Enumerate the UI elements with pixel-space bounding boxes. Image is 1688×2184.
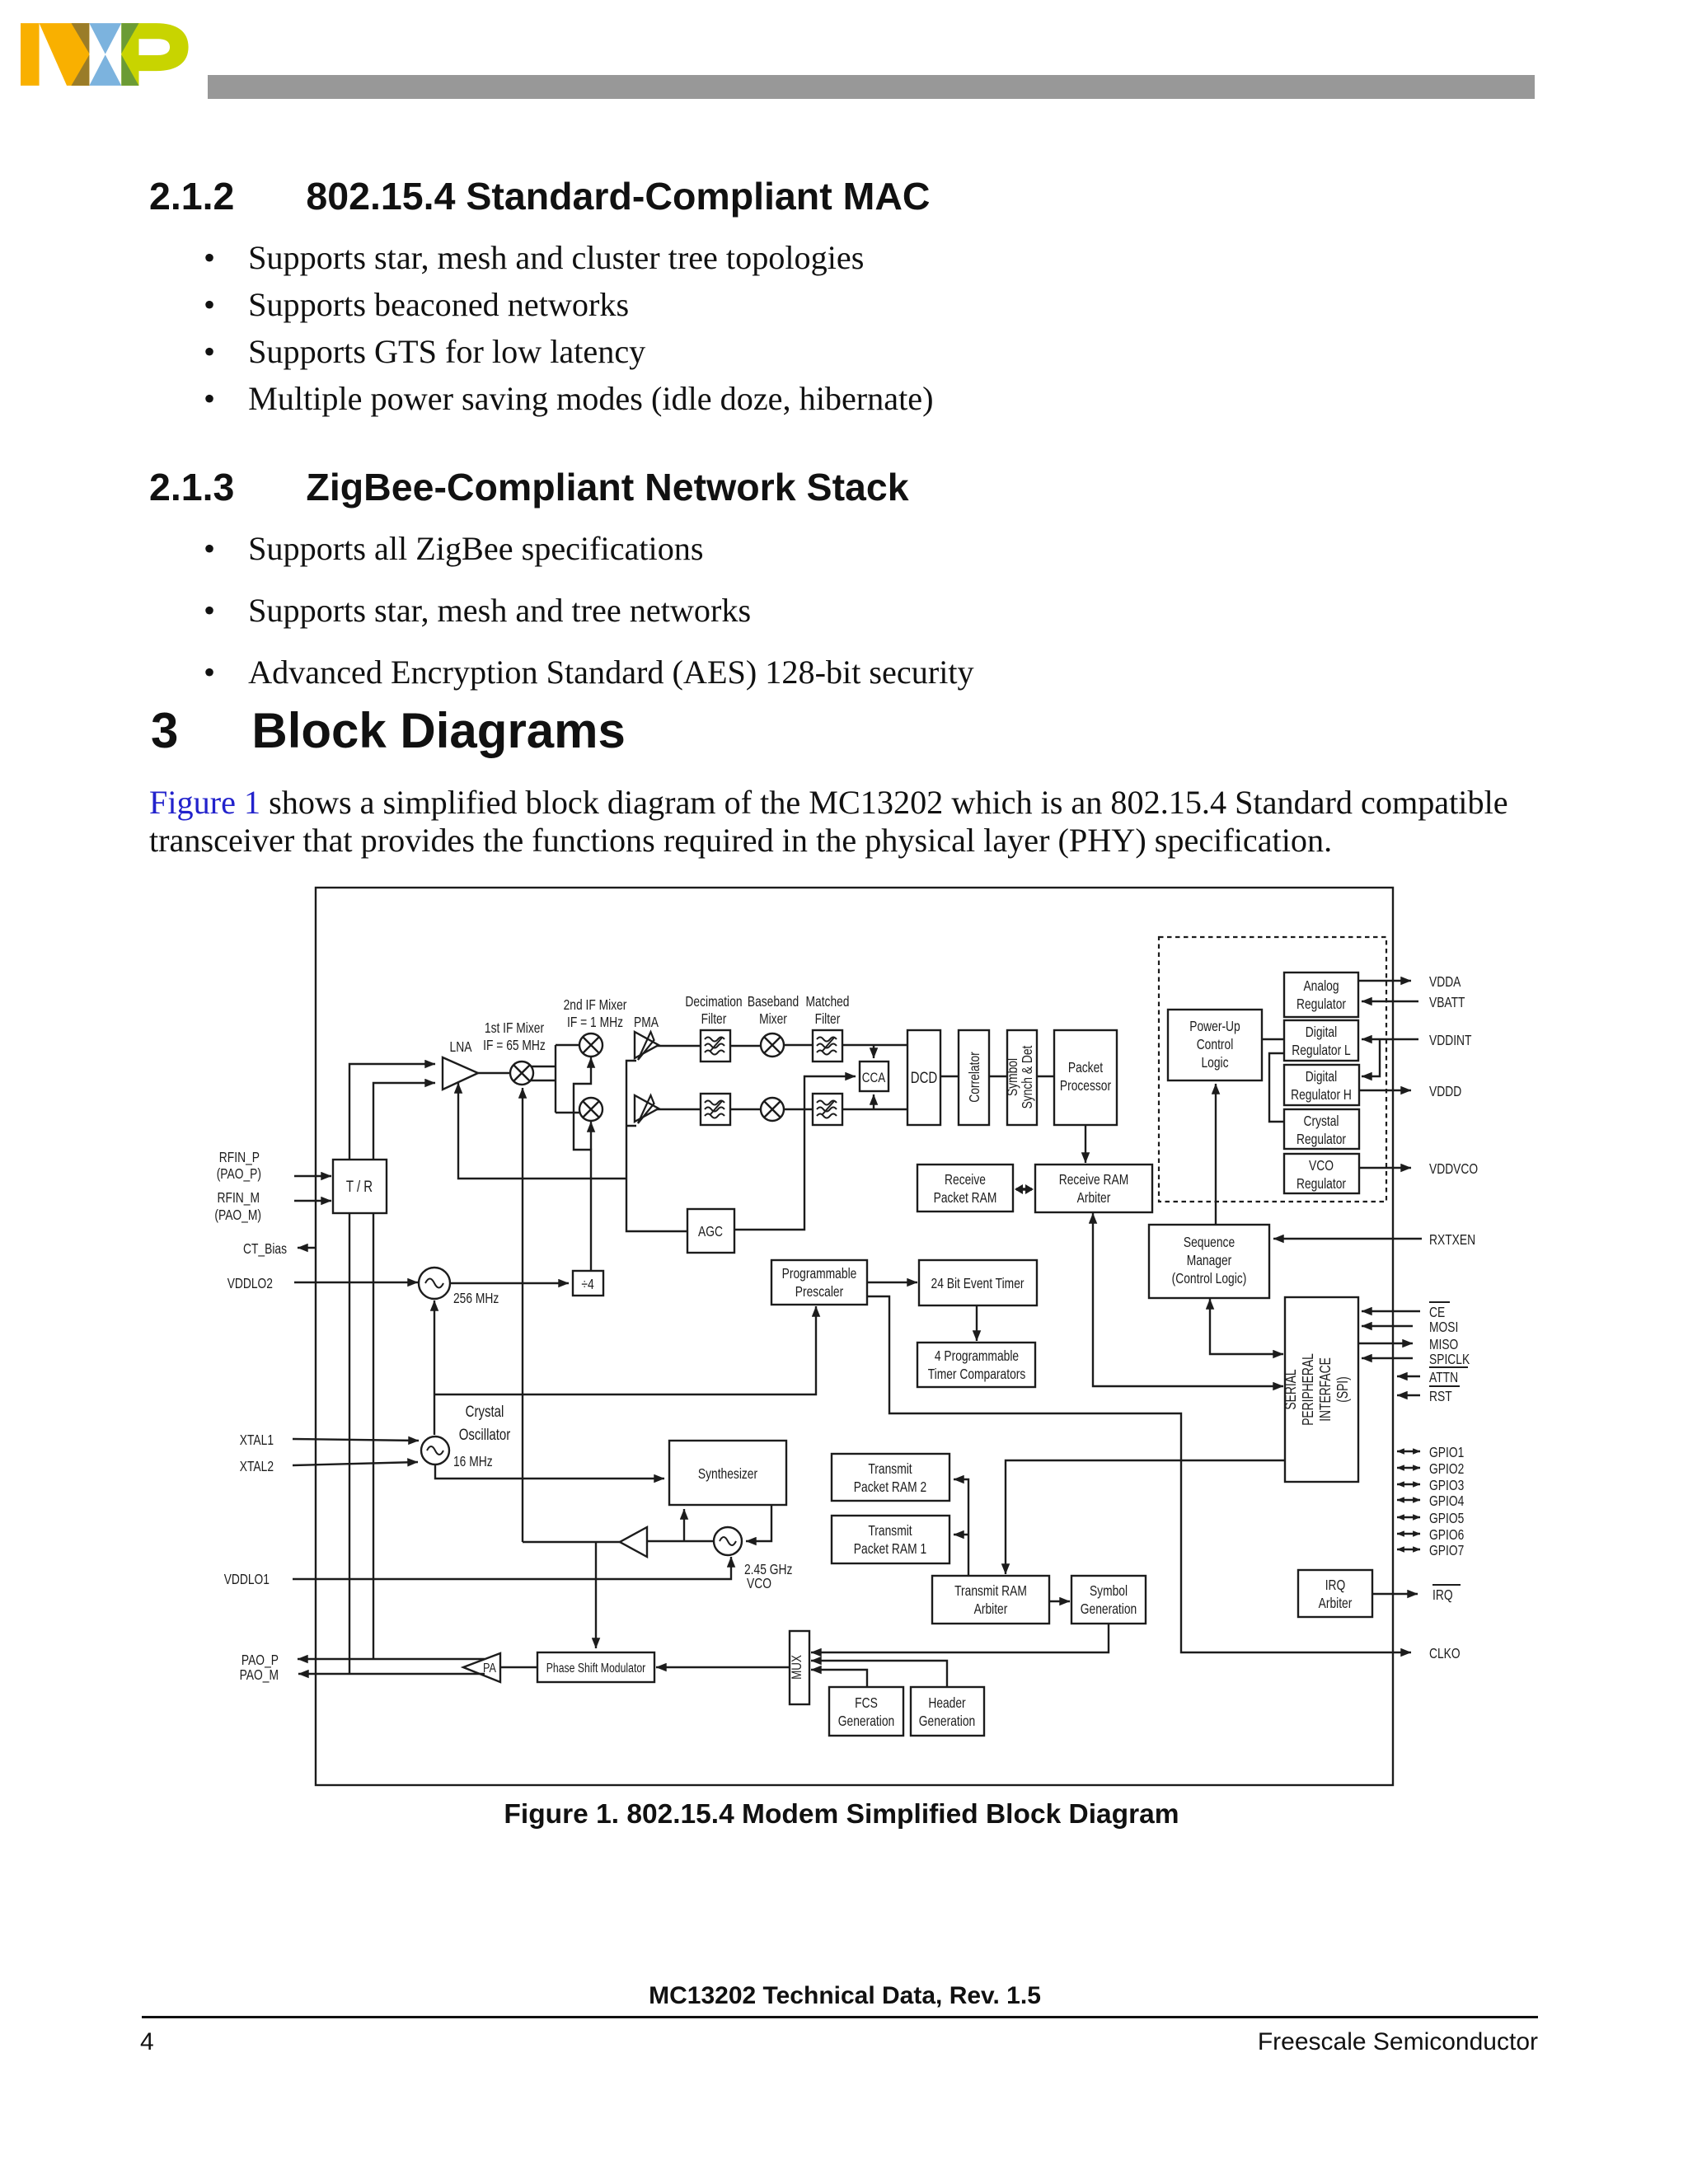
section 2.1.2 heading bbox=[149, 177, 931, 215]
wire matched filter upper to DCD bbox=[842, 1044, 907, 1046]
wire lower chain into CCA bottom bbox=[873, 1094, 874, 1109]
svg-text:÷4: ÷4 bbox=[581, 1276, 594, 1292]
figure caption bbox=[0, 1799, 1683, 1830]
svg-text:(PAO_P): (PAO_P) bbox=[217, 1165, 261, 1183]
svg-text:Decimation: Decimation bbox=[685, 993, 742, 1010]
pin GPIO2 double arrow bbox=[1397, 1467, 1420, 1469]
wire matched filter lower to DCD bbox=[842, 1108, 907, 1110]
wire 256MHz oscillator to divide-by-4 bbox=[450, 1282, 569, 1284]
svg-text:VDDD: VDDD bbox=[1429, 1083, 1461, 1099]
block DCD bbox=[907, 1030, 940, 1125]
svg-text:(PAO_M): (PAO_M) bbox=[214, 1207, 261, 1224]
svg-text:VCO: VCO bbox=[1309, 1157, 1334, 1174]
pin GPIO4 double arrow bbox=[1397, 1499, 1420, 1501]
svg-text:AGC: AGC bbox=[698, 1223, 723, 1240]
svg-text:Filter: Filter bbox=[701, 1010, 727, 1027]
block Phase Shift Modulator bbox=[537, 1652, 654, 1682]
outer frame of block diagram bbox=[316, 888, 1393, 1785]
block Transmit Packet RAM 1 bbox=[832, 1516, 949, 1563]
svg-text:Power-Up: Power-Up bbox=[1189, 1018, 1240, 1034]
block IRQ Arbiter bbox=[1298, 1570, 1372, 1617]
svg-text:T / R: T / R bbox=[346, 1179, 373, 1196]
footer page number bbox=[140, 2028, 154, 2056]
svg-text:Generation: Generation bbox=[838, 1713, 894, 1729]
svg-text:Header: Header bbox=[928, 1694, 965, 1711]
wire divide-by-4 output up to 2nd IF mixers bbox=[574, 1057, 591, 1271]
block FCS Generation bbox=[829, 1687, 903, 1736]
wire VDDVCO output bbox=[1359, 1167, 1411, 1169]
svg-text:Mixer: Mixer bbox=[759, 1010, 787, 1027]
mixer baseband upper bbox=[761, 1033, 784, 1057]
wire VDDLO2 to 256MHz oscillator bbox=[294, 1282, 418, 1283]
wire decimation to baseband mixer lower bbox=[730, 1108, 761, 1110]
svg-text:Manager: Manager bbox=[1187, 1252, 1232, 1268]
wire 1st IF mixer output stubs to split bus bbox=[531, 1045, 580, 1113]
block Symbol Synch and Det bbox=[1007, 1030, 1037, 1125]
wire double arrow Receive Packet RAM to Receive RAM Arbiter bbox=[1016, 1188, 1032, 1190]
block Crystal Regulator bbox=[1284, 1109, 1359, 1149]
svg-text:Digital: Digital bbox=[1306, 1024, 1337, 1040]
bullets 2.1.3 bbox=[204, 518, 974, 703]
wire PMA upper output to decimation filter bbox=[657, 1045, 701, 1047]
svg-text:RST: RST bbox=[1429, 1388, 1452, 1404]
svg-text:VDDVCO: VDDVCO bbox=[1429, 1160, 1478, 1177]
svg-text:Sequence: Sequence bbox=[1184, 1234, 1235, 1250]
amplifier PA bbox=[463, 1653, 500, 1682]
wire LO from VCO buffer up to 1st IF mixer bbox=[522, 1088, 523, 1542]
svg-text:Transmit: Transmit bbox=[868, 1522, 912, 1539]
svg-text:Matched: Matched bbox=[806, 993, 850, 1010]
section 2.1.3 heading bbox=[149, 468, 909, 506]
wire buffer line down to Phase Shift Modulator bbox=[595, 1542, 597, 1648]
block Programmable Prescaler bbox=[771, 1260, 867, 1305]
svg-text:RXTXEN: RXTXEN bbox=[1429, 1231, 1475, 1248]
wire Sequence Manager up to Power-Up Control Logic bbox=[1215, 1084, 1217, 1225]
wire T/R bottom to PAO_P line bbox=[373, 1213, 374, 1659]
oscillator 256 MHz bbox=[419, 1268, 450, 1299]
block Digital Regulator L bbox=[1284, 1020, 1358, 1061]
wire RFIN_M into T/R bbox=[294, 1200, 331, 1202]
block CCA bbox=[860, 1062, 889, 1091]
svg-text:IRQ: IRQ bbox=[1432, 1586, 1453, 1603]
svg-text:Crystal: Crystal bbox=[466, 1404, 504, 1421]
wire Transmit RAM Arbiter to Symbol Generation bbox=[1049, 1601, 1070, 1602]
wire VDDINT input to Digital Regulators bbox=[1362, 1038, 1418, 1040]
wire SPI link to Sequence Manager bottom bbox=[1210, 1299, 1283, 1354]
svg-text:Receive: Receive bbox=[945, 1171, 986, 1188]
svg-text:Generation: Generation bbox=[919, 1713, 975, 1729]
svg-text:1st IF Mixer: 1st IF Mixer bbox=[485, 1019, 544, 1036]
wire VBATT input to Analog Regulator bbox=[1362, 1001, 1418, 1002]
svg-text:PAO_M: PAO_M bbox=[240, 1666, 279, 1684]
svg-text:LNA: LNA bbox=[450, 1038, 472, 1055]
pin GPIO3 double arrow bbox=[1397, 1483, 1420, 1485]
bullets 2.1.2 bbox=[204, 234, 934, 422]
wire AGC to CCA left input bbox=[734, 1076, 856, 1230]
svg-text:Symbol: Symbol bbox=[1090, 1582, 1128, 1599]
svg-text:Phase Shift Modulator: Phase Shift Modulator bbox=[546, 1661, 646, 1675]
svg-text:Packet: Packet bbox=[1068, 1059, 1103, 1076]
svg-text:VDDA: VDDA bbox=[1429, 973, 1461, 990]
wire DCD to Correlator bbox=[940, 1076, 959, 1077]
block 24 Bit Event Timer bbox=[919, 1260, 1037, 1305]
svg-text:MISO: MISO bbox=[1429, 1336, 1458, 1352]
svg-text:Arbiter: Arbiter bbox=[1319, 1595, 1353, 1611]
svg-text:RFIN_P: RFIN_P bbox=[219, 1149, 260, 1166]
wire Digital Regulator L link down to Crystal Regulator bbox=[1269, 1053, 1284, 1122]
svg-text:Crystal: Crystal bbox=[1304, 1113, 1339, 1129]
wire Packet Processor down to Receive RAM Arbiter bbox=[1085, 1125, 1086, 1163]
wire Transmit RAM Arbiter up to Transmit Packet RAMs bbox=[954, 1479, 968, 1576]
svg-text:PA: PA bbox=[483, 1661, 496, 1675]
svg-text:VBATT: VBATT bbox=[1429, 994, 1465, 1010]
svg-text:Baseband: Baseband bbox=[748, 993, 799, 1010]
wire Header Generation up to MUX bbox=[811, 1661, 947, 1687]
svg-text:Programmable: Programmable bbox=[782, 1265, 857, 1282]
wire Prescaler second output to CLKO bbox=[867, 1296, 1411, 1652]
wire Timer down to Comparators bbox=[976, 1305, 978, 1341]
wire T/R bottom to PAO_M line bbox=[349, 1213, 350, 1674]
wire Phase Shift Modulator to PA bbox=[500, 1666, 537, 1668]
wire T/R top to LNA lower input bbox=[373, 1083, 435, 1160]
footer right bbox=[0, 2028, 1538, 2056]
svg-text:Digital: Digital bbox=[1306, 1068, 1337, 1085]
wire buffer output to 1st IF mixer column bbox=[523, 1541, 620, 1543]
svg-text:ATTN: ATTN bbox=[1429, 1369, 1458, 1385]
svg-text:CCA: CCA bbox=[862, 1070, 886, 1085]
wire Synthesizer output down to VCO bbox=[746, 1505, 771, 1541]
wire decimation to baseband mixer upper bbox=[730, 1045, 761, 1047]
svg-text:MUX: MUX bbox=[789, 1655, 804, 1680]
mixer 2nd IF lower bbox=[579, 1098, 603, 1121]
block T/R switch bbox=[333, 1160, 387, 1213]
block Transmit RAM Arbiter bbox=[932, 1576, 1049, 1624]
pin GPIO1 double arrow bbox=[1397, 1451, 1420, 1452]
section 3 heading bbox=[151, 706, 626, 756]
mixer baseband lower bbox=[761, 1098, 784, 1121]
wire SPICLK into SPI bbox=[1362, 1357, 1413, 1359]
wire Symbol Generation down to MUX bbox=[811, 1624, 1109, 1652]
wire feedback up into Synthesizer bottom bbox=[683, 1509, 685, 1541]
block divide by 4 bbox=[573, 1271, 603, 1296]
svg-text:MOSI: MOSI bbox=[1429, 1319, 1458, 1335]
svg-text:SPICLK: SPICLK bbox=[1429, 1351, 1470, 1367]
svg-text:Packet RAM 1: Packet RAM 1 bbox=[854, 1540, 926, 1557]
svg-text:Regulator: Regulator bbox=[1296, 996, 1346, 1012]
svg-text:Prescaler: Prescaler bbox=[795, 1283, 844, 1300]
footer center bbox=[0, 1982, 1688, 2010]
wire IRQ Arbiter to IRQ pin bbox=[1372, 1593, 1418, 1595]
svg-text:PMA: PMA bbox=[634, 1014, 659, 1030]
svg-text:Synch & Det: Synch & Det bbox=[1019, 1046, 1035, 1109]
svg-text:Filter: Filter bbox=[815, 1010, 841, 1027]
wire Prescaler to 24 Bit Event Timer bbox=[867, 1282, 917, 1283]
svg-text:Correlator: Correlator bbox=[966, 1052, 982, 1103]
svg-text:VDDLO2: VDDLO2 bbox=[227, 1275, 273, 1291]
block Analog Regulator bbox=[1284, 972, 1358, 1017]
svg-text:VCO: VCO bbox=[747, 1575, 771, 1591]
filter matched lower bbox=[813, 1094, 842, 1125]
svg-text:Oscillator: Oscillator bbox=[459, 1427, 511, 1444]
wire LNA output to 1st IF mixer bbox=[478, 1072, 510, 1074]
wire FCS Generation up to MUX bbox=[811, 1670, 867, 1687]
paragraph bbox=[149, 784, 1508, 860]
mixer 2nd IF upper bbox=[579, 1033, 603, 1057]
svg-text:VDDINT: VDDINT bbox=[1429, 1032, 1472, 1048]
dashed regulator group box bbox=[1159, 937, 1386, 1202]
filter decimation upper bbox=[701, 1030, 730, 1062]
svg-text:Processor: Processor bbox=[1060, 1077, 1111, 1094]
svg-text:GPIO2: GPIO2 bbox=[1429, 1460, 1464, 1477]
wire RFIN_P into T/R bbox=[294, 1175, 331, 1177]
svg-text:Transmit RAM: Transmit RAM bbox=[954, 1582, 1027, 1599]
svg-text:(Control Logic): (Control Logic) bbox=[1172, 1270, 1247, 1286]
wire T/R top to LNA upper input bbox=[349, 1064, 435, 1160]
wire SPI to Receive RAM Arbiter bottom bbox=[1093, 1213, 1283, 1386]
block Symbol Generation bbox=[1071, 1576, 1146, 1624]
wire Symbol Synch to Packet Processor bbox=[1037, 1076, 1054, 1077]
block AGC bbox=[687, 1209, 734, 1253]
block 4 Programmable Timer Comparators bbox=[917, 1343, 1035, 1387]
block Header Generation bbox=[911, 1687, 984, 1736]
svg-text:Timer Comparators: Timer Comparators bbox=[928, 1366, 1026, 1382]
svg-text:IF = 1 MHz: IF = 1 MHz bbox=[567, 1014, 623, 1030]
block Digital Regulator H bbox=[1284, 1065, 1359, 1105]
wire baseband mixer to matched filter lower bbox=[784, 1108, 813, 1110]
svg-text:(SPI): (SPI) bbox=[1334, 1376, 1351, 1403]
svg-text:XTAL2: XTAL2 bbox=[240, 1458, 274, 1474]
amplifier LNA bbox=[443, 1057, 478, 1090]
svg-text:GPIO5: GPIO5 bbox=[1429, 1510, 1464, 1526]
svg-text:Transmit: Transmit bbox=[868, 1460, 912, 1477]
wire MOSI into SPI bbox=[1362, 1325, 1413, 1327]
pin GPIO6 double arrow bbox=[1397, 1533, 1420, 1535]
svg-text:VDDLO1: VDDLO1 bbox=[224, 1571, 270, 1587]
filter matched upper bbox=[813, 1030, 842, 1062]
svg-text:24 Bit Event Timer: 24 Bit Event Timer bbox=[931, 1275, 1025, 1291]
pin GPIO5 double arrow bbox=[1397, 1516, 1420, 1518]
svg-text:RFIN_M: RFIN_M bbox=[218, 1189, 260, 1207]
wire PMA lower output to decimation filter bbox=[657, 1108, 701, 1110]
svg-text:Symbol: Symbol bbox=[1004, 1058, 1020, 1096]
svg-text:CT_Bias: CT_Bias bbox=[243, 1240, 287, 1258]
wire VDDLO1 to VCO bbox=[293, 1557, 731, 1579]
wire CE into SPI bbox=[1362, 1310, 1420, 1312]
amplifier LO buffer bbox=[620, 1527, 647, 1557]
wire PAO_M from PA output bbox=[298, 1673, 485, 1675]
svg-text:CLKO: CLKO bbox=[1429, 1645, 1461, 1661]
filter decimation lower bbox=[701, 1094, 730, 1125]
wire XTAL2 to crystal oscillator bbox=[293, 1462, 418, 1465]
svg-text:DCD: DCD bbox=[911, 1070, 938, 1087]
block Receive Packet RAM bbox=[917, 1165, 1013, 1212]
wire SPI to Transmit RAM Arbiter top bbox=[1006, 1460, 1285, 1574]
wire PAO_P from PA output bbox=[298, 1658, 485, 1660]
amplifier PMA lower bbox=[635, 1095, 659, 1122]
svg-text:GPIO3: GPIO3 bbox=[1429, 1477, 1464, 1493]
wire CT_Bias out of frame bbox=[298, 1247, 316, 1249]
svg-text:IRQ: IRQ bbox=[1325, 1577, 1346, 1593]
svg-text:INTERFACE: INTERFACE bbox=[1317, 1357, 1334, 1422]
mixer 1st IF bbox=[510, 1062, 533, 1085]
svg-text:CE: CE bbox=[1429, 1304, 1445, 1320]
svg-text:XTAL1: XTAL1 bbox=[240, 1432, 274, 1448]
block VCO Regulator bbox=[1284, 1154, 1359, 1193]
pin GPIO7 double arrow bbox=[1397, 1549, 1420, 1550]
NXP logo bbox=[21, 23, 191, 86]
svg-text:Regulator L: Regulator L bbox=[1292, 1042, 1351, 1058]
svg-text:Packet RAM: Packet RAM bbox=[934, 1189, 997, 1206]
svg-text:Analog: Analog bbox=[1303, 977, 1339, 994]
wire Correlator to Symbol Synch bbox=[989, 1076, 1007, 1077]
svg-text:Regulator H: Regulator H bbox=[1291, 1086, 1352, 1103]
wire Power-Up Control Logic to Digital Regulator L bbox=[1262, 1038, 1284, 1040]
svg-text:PERIPHERAL: PERIPHERAL bbox=[1300, 1353, 1316, 1426]
wire RST into frame bbox=[1397, 1394, 1420, 1396]
block Sequence Manager bbox=[1149, 1225, 1269, 1298]
svg-text:256 MHz: 256 MHz bbox=[453, 1290, 499, 1306]
svg-text:FCS: FCS bbox=[855, 1694, 878, 1711]
wire AGC to PMA gain control bbox=[626, 1061, 687, 1231]
block Transmit Packet RAM 2 bbox=[832, 1454, 949, 1501]
svg-text:GPIO1: GPIO1 bbox=[1429, 1444, 1464, 1460]
svg-text:Generation: Generation bbox=[1081, 1601, 1137, 1617]
wire MUX to Phase Shift Modulator bbox=[656, 1666, 790, 1668]
wire VDDA output bbox=[1358, 980, 1411, 982]
svg-text:Regulator: Regulator bbox=[1296, 1175, 1346, 1192]
wire crystal oscillator to Synthesizer bbox=[435, 1465, 664, 1479]
svg-text:Synthesizer: Synthesizer bbox=[698, 1465, 757, 1482]
svg-text:2nd IF Mixer: 2nd IF Mixer bbox=[564, 996, 627, 1013]
svg-text:Packet RAM 2: Packet RAM 2 bbox=[854, 1479, 926, 1495]
svg-text:Regulator: Regulator bbox=[1296, 1131, 1346, 1147]
block Packet Processor bbox=[1054, 1030, 1117, 1125]
svg-text:Arbiter: Arbiter bbox=[974, 1601, 1008, 1617]
gray header bar bbox=[208, 75, 1535, 99]
svg-text:GPIO4: GPIO4 bbox=[1429, 1493, 1465, 1509]
footer rule bbox=[142, 2016, 1538, 2018]
pin label RFIN_M bbox=[214, 1189, 261, 1224]
wire MISO out of SPI bbox=[1358, 1343, 1413, 1344]
oscillator crystal 16 MHz bbox=[421, 1436, 449, 1465]
wire RXTXEN into Sequence Manager bbox=[1273, 1238, 1422, 1240]
wire upper chain into CCA top bbox=[873, 1045, 874, 1058]
wire baseband mixer to matched filter upper bbox=[784, 1044, 813, 1046]
svg-text:Logic: Logic bbox=[1201, 1054, 1228, 1071]
oscillator VCO 2.45 GHz bbox=[714, 1527, 742, 1555]
block Power-Up Control Logic bbox=[1168, 1010, 1262, 1080]
block Receive RAM Arbiter bbox=[1035, 1165, 1152, 1212]
svg-text:Receive RAM: Receive RAM bbox=[1059, 1171, 1129, 1188]
svg-text:16 MHz: 16 MHz bbox=[453, 1453, 493, 1469]
wire ATTN into frame bbox=[1397, 1376, 1420, 1377]
svg-text:SERIAL: SERIAL bbox=[1282, 1369, 1299, 1409]
svg-text:IF = 65 MHz: IF = 65 MHz bbox=[483, 1037, 546, 1053]
wire VDDD output bbox=[1359, 1090, 1411, 1091]
svg-text:4 Programmable: 4 Programmable bbox=[935, 1347, 1019, 1364]
wire AGC gain control to LNA bbox=[458, 1083, 626, 1179]
wire XTAL1 to crystal oscillator bbox=[293, 1439, 419, 1441]
svg-text:GPIO6: GPIO6 bbox=[1429, 1526, 1464, 1543]
amplifier PMA upper bbox=[635, 1032, 659, 1058]
block MUX bbox=[790, 1631, 809, 1704]
wire VCO to buffer bbox=[647, 1540, 714, 1542]
svg-text:Arbiter: Arbiter bbox=[1077, 1189, 1111, 1206]
block Serial Peripheral Interface SPI bbox=[1285, 1297, 1358, 1482]
svg-text:GPIO7: GPIO7 bbox=[1429, 1542, 1464, 1558]
wire crystal oscillator up to 256MHz oscillator and prescaler bbox=[434, 1301, 435, 1435]
svg-text:Control: Control bbox=[1197, 1036, 1234, 1052]
pin label RFIN_P bbox=[217, 1149, 261, 1183]
block Synthesizer bbox=[669, 1441, 786, 1505]
block Correlator bbox=[959, 1030, 989, 1125]
